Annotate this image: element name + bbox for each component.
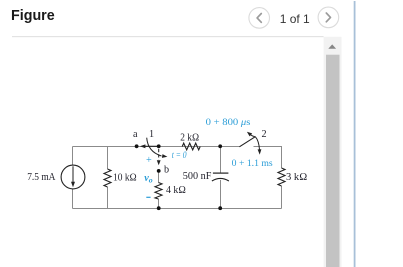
- svg-text:b: b: [164, 165, 169, 176]
- svg-text:7.5 mA: 7.5 mA: [27, 172, 56, 183]
- switch 2 opening arrow arc: [251, 135, 256, 137]
- switch 1 drop arrowhead: [157, 160, 161, 165]
- svg-text:10 kΩ: 10 kΩ: [113, 172, 137, 183]
- node capacitor top dot: [218, 144, 222, 148]
- switch 2 blade: [239, 137, 255, 147]
- label minus sign vo: [146, 196, 150, 198]
- current source arrow: [71, 166, 75, 187]
- svg-text:t = 0: t = 0: [172, 150, 187, 160]
- svg-text:0 + 800 μs: 0 + 800 μs: [206, 117, 251, 128]
- right panel divider blue line: [354, 1, 356, 267]
- svg-text:2: 2: [261, 129, 266, 140]
- pager prev button circle: [249, 8, 270, 29]
- header separator line: [12, 36, 324, 37]
- pager next button circle: [318, 7, 339, 28]
- pager prev chevron: [257, 14, 261, 23]
- node a dot: [135, 144, 139, 148]
- resistor R 2k zigzag: [182, 143, 200, 150]
- switch 1 motion arc arrowhead: [162, 154, 168, 158]
- svg-text:0 + 1.1 ms: 0 + 1.1 ms: [232, 158, 273, 169]
- switch 2 opening arrowhead: [247, 132, 252, 137]
- wire capacitor branch bottom: [220, 180, 222, 209]
- node b dot: [157, 169, 161, 173]
- svg-text:a: a: [133, 129, 138, 140]
- wire top left section: [73, 146, 240, 148]
- switch 1 blade toward a: [145, 145, 159, 147]
- resistor R 10k zigzag: [104, 169, 111, 187]
- svg-text:3 kΩ: 3 kΩ: [286, 172, 307, 183]
- scrollbar track: [324, 37, 342, 267]
- resistor R 4k zigzag: [155, 183, 162, 200]
- capacitor C1 curved plate: [212, 178, 229, 181]
- svg-text:2 kΩ: 2 kΩ: [180, 133, 199, 144]
- wire 10k branch bottom: [107, 187, 109, 209]
- wire 4k branch top: [158, 171, 160, 183]
- wire left vertical bottom: [72, 189, 74, 209]
- scrollbar thumb: [326, 55, 340, 267]
- node 1 dot: [157, 144, 161, 148]
- current source I1 circle: [61, 165, 85, 189]
- wire capacitor branch top: [220, 147, 222, 173]
- node 4k bottom dot: [157, 206, 161, 210]
- switch 2 closing arrowhead: [258, 149, 262, 154]
- wire 4k branch bottom: [158, 199, 160, 209]
- svg-text:500 nF: 500 nF: [183, 171, 212, 182]
- svg-text:1: 1: [149, 129, 154, 140]
- wire left vertical top: [72, 147, 74, 166]
- switch 1 motion arc: [147, 138, 162, 156]
- pager text "1 of 1": [280, 12, 310, 26]
- switch 1 blade arrowhead at a: [140, 144, 146, 148]
- header title "Figure": [11, 8, 55, 24]
- wire 10k branch top: [107, 147, 109, 170]
- svg-text:4 kΩ: 4 kΩ: [166, 185, 186, 196]
- svg-text:+: +: [146, 155, 152, 166]
- scrollbar up arrow: [328, 44, 336, 48]
- node capacitor bottom dot: [218, 206, 222, 210]
- capacitor C1 top plate: [213, 172, 229, 174]
- switch 2 closing arrow arc: [255, 137, 259, 150]
- resistor R 3k zigzag: [278, 168, 285, 186]
- switch 1 dashed drop line to b: [158, 149, 160, 160]
- wire top right section with corner: [254, 147, 282, 169]
- wire right vertical lower: [281, 186, 283, 209]
- svg-text:vo: vo: [144, 173, 153, 185]
- wire bottom: [73, 208, 282, 210]
- pager next chevron: [326, 13, 330, 22]
